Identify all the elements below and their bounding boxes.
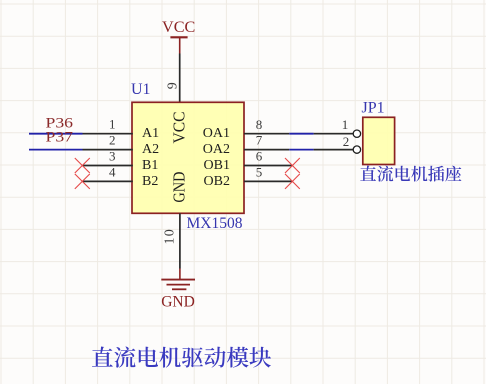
pin 2 (A2) — [83, 149, 133, 151]
svg-text:1: 1 — [109, 117, 116, 132]
pin 7 (OA2) — [244, 149, 289, 151]
pin 8 (OA1) — [244, 133, 289, 135]
no-connect X on pin 5 — [285, 174, 300, 189]
svg-text:B1: B1 — [142, 158, 158, 173]
JP1 pin 1 circle — [353, 130, 360, 137]
svg-text:7: 7 — [256, 133, 263, 148]
svg-text:3: 3 — [109, 149, 116, 164]
pin 4 (B2) — [83, 180, 133, 182]
IC U1 body — [132, 102, 244, 213]
svg-text:2: 2 — [343, 134, 350, 149]
svg-text:B2: B2 — [142, 174, 158, 189]
no-connect X on pin 3 — [75, 158, 90, 173]
svg-text:MX1508: MX1508 — [187, 215, 243, 232]
ground symbol — [161, 269, 195, 290]
svg-text:6: 6 — [256, 149, 263, 164]
svg-text:A1: A1 — [142, 126, 159, 141]
title 直流电机驱动模块 (DC motor drive module) — [92, 347, 271, 368]
svg-text:OB2: OB2 — [204, 174, 230, 189]
svg-text:VCC: VCC — [170, 112, 189, 144]
JP1 pin 2 circle — [353, 146, 360, 153]
wire net P37 — [29, 149, 83, 151]
wire U1 pin8 to JP1 pin1 (blue segment) — [289, 133, 313, 135]
svg-text:OA1: OA1 — [203, 126, 230, 141]
svg-text:9: 9 — [165, 82, 180, 89]
connector JP1 body — [363, 117, 395, 164]
pin 1 (A1) — [83, 133, 133, 135]
svg-text:VCC: VCC — [162, 18, 195, 36]
svg-text:10: 10 — [163, 228, 178, 244]
svg-text:GND: GND — [161, 293, 195, 310]
svg-text:OB1: OB1 — [204, 158, 230, 173]
wire VCC to U1 pin 9 — [179, 54, 181, 103]
svg-text:4: 4 — [109, 164, 116, 179]
pin 3 (B1) — [83, 165, 133, 167]
svg-text:JP1: JP1 — [362, 99, 385, 116]
svg-text:OA2: OA2 — [203, 142, 230, 157]
no-connect X on pin 6 — [285, 158, 300, 173]
power symbol VCC (bar) — [170, 37, 187, 53]
text label 直流电机插座 (DC motor socket) — [360, 166, 461, 182]
svg-text:P37: P37 — [46, 129, 74, 145]
svg-text:1: 1 — [342, 117, 349, 132]
svg-text:A2: A2 — [142, 142, 159, 157]
svg-text:5: 5 — [256, 165, 263, 180]
JP1 pin 1 lead — [314, 133, 353, 135]
pin 5 (OB2) — [244, 180, 292, 182]
svg-text:U1: U1 — [131, 81, 151, 98]
svg-text:GND: GND — [170, 172, 189, 203]
no-connect X on pin 4 — [75, 174, 90, 189]
wire U1 pin7 to JP1 pin2 (blue segment) — [289, 149, 313, 151]
pin 6 (OB1) — [244, 165, 292, 167]
wire net P36 — [29, 133, 83, 135]
JP1 pin 2 lead — [314, 149, 353, 151]
svg-text:8: 8 — [256, 117, 263, 132]
svg-text:2: 2 — [109, 133, 116, 148]
wire U1 pin 10 to GND — [179, 213, 181, 268]
